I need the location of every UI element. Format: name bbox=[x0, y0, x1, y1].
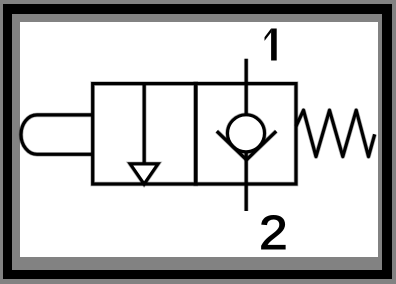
return spring bbox=[296, 110, 375, 156]
check valve seat right arm bbox=[247, 131, 277, 160]
check valve circle bbox=[228, 115, 265, 152]
port line from 1 to 2 through valve bbox=[244, 59, 249, 211]
svg-text:2: 2 bbox=[259, 207, 288, 260]
port label 1 bbox=[265, 29, 277, 61]
valve body: right position box bbox=[196, 84, 296, 184]
valve body: left position box bbox=[93, 84, 196, 184]
exhaust triangle bbox=[130, 164, 158, 184]
push button actuator bbox=[21, 115, 93, 154]
check valve seat left arm bbox=[217, 131, 247, 160]
white drawing area bbox=[20, 22, 379, 258]
vent line in left box bbox=[142, 84, 147, 163]
